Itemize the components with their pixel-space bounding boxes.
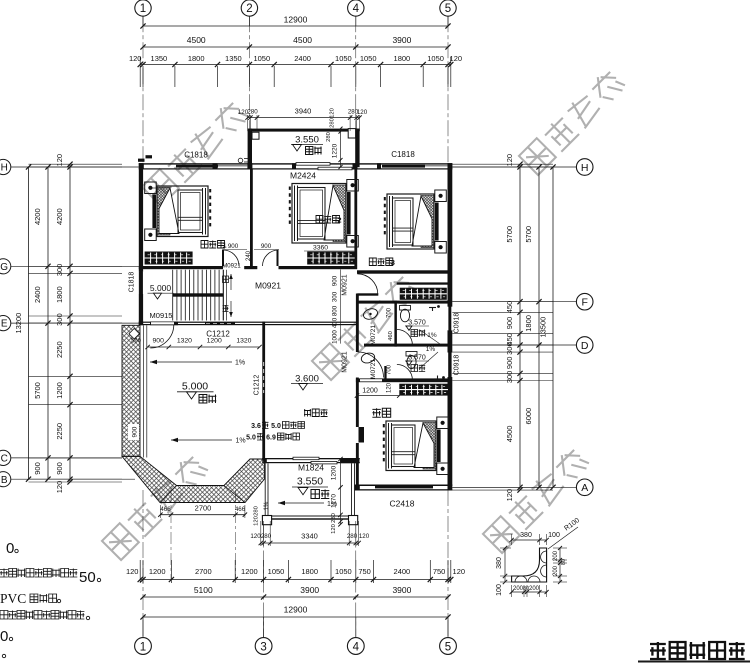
svg-text:120: 120 <box>505 154 514 167</box>
svg-text:120: 120 <box>505 489 514 502</box>
svg-text:C: C <box>1 454 8 465</box>
svg-text:1800: 1800 <box>55 286 64 303</box>
svg-text:380: 380 <box>520 532 532 539</box>
bedroom3 closet back line <box>397 282 448 284</box>
bath drain lines 1% <box>420 330 440 344</box>
svg-text:3940: 3940 <box>295 107 312 116</box>
svg-text:1%: 1% <box>235 360 245 367</box>
wardrobe bedroom2 <box>307 252 355 265</box>
svg-text:5700: 5700 <box>33 382 42 399</box>
svg-text:1220: 1220 <box>332 143 339 158</box>
door arc M0921 corridor-master-hall <box>358 352 384 378</box>
label bedroom3 (ciwo3) <box>369 258 393 266</box>
grid bubble 4 top <box>348 0 364 16</box>
grid bubble 1 top <box>135 0 151 16</box>
title underline <box>638 661 750 663</box>
detail R100 leader <box>548 527 578 549</box>
svg-text:4200: 4200 <box>55 208 64 225</box>
svg-text:120: 120 <box>450 54 463 63</box>
svg-text:M1824: M1824 <box>298 463 324 473</box>
stairs <box>173 270 224 321</box>
window sill marks top-left corner <box>138 159 145 162</box>
terrace parapet top (roof terrace) <box>248 129 360 132</box>
svg-text:120: 120 <box>453 567 466 576</box>
detail drawing gutter profile <box>512 548 547 582</box>
balcony post left <box>262 516 271 525</box>
svg-text:M0921: M0921 <box>342 274 349 296</box>
svg-text:12900: 12900 <box>284 605 308 615</box>
svg-text:120: 120 <box>387 382 393 393</box>
svg-text:560: 560 <box>131 339 142 345</box>
svg-text:C0918: C0918 <box>454 355 461 376</box>
sink master bath <box>360 352 376 365</box>
window C1212 in wall E <box>205 322 235 324</box>
svg-text:240: 240 <box>246 250 252 261</box>
svg-text:900: 900 <box>228 243 239 250</box>
grid leader G left <box>11 265 139 267</box>
dim 900 in parapet <box>128 424 139 440</box>
svg-text:3.550: 3.550 <box>297 476 323 488</box>
right dim line 13500 <box>552 167 554 487</box>
wall G under bedroom3 <box>357 270 448 273</box>
grid centerline 2 <box>248 16 250 167</box>
title glyphs <box>650 642 745 659</box>
grid bubble E left <box>0 316 11 331</box>
grid bubble 1 bottom <box>135 638 152 655</box>
svg-text:1200: 1200 <box>207 338 222 345</box>
svg-text:M0921: M0921 <box>255 281 281 291</box>
svg-text:300: 300 <box>505 371 514 384</box>
svg-text:1050: 1050 <box>335 567 352 576</box>
svg-text:2700: 2700 <box>195 504 212 513</box>
svg-text:1800: 1800 <box>301 567 318 576</box>
grid centerline 5 <box>447 16 449 162</box>
svg-text:1: 1 <box>140 642 146 654</box>
wardrobe master bedroom <box>399 384 448 396</box>
svg-text:1170: 1170 <box>331 494 338 508</box>
label up (shang) <box>223 305 229 312</box>
svg-text:900: 900 <box>153 338 165 345</box>
svg-text:1050: 1050 <box>335 54 352 63</box>
svg-text:5700: 5700 <box>505 226 514 243</box>
svg-text:M0915: M0915 <box>150 311 173 320</box>
svg-text:380: 380 <box>496 557 503 569</box>
svg-text:750: 750 <box>433 567 446 576</box>
svg-text:1%: 1% <box>264 501 270 510</box>
svg-text:C1212: C1212 <box>254 375 261 396</box>
grid bubble 3 bottom <box>255 638 272 655</box>
exterior wall bottom master (grid A) <box>355 485 453 487</box>
svg-text:C1818: C1818 <box>184 151 208 160</box>
window C0918 lower in right wall <box>448 353 451 378</box>
terrace hatched parapet left column <box>122 325 140 456</box>
opening M0915 zone <box>150 322 178 326</box>
grid bubble B left <box>0 472 11 487</box>
grid bubble 5 top <box>440 0 456 16</box>
shower symbols <box>429 307 436 309</box>
top terrace dim row 120/280/3940/280/120 <box>248 117 360 119</box>
svg-text:6.9: 6.9 <box>266 435 276 442</box>
grid bubble H left <box>0 159 11 174</box>
svg-text:700: 700 <box>387 307 393 318</box>
svg-text:300: 300 <box>505 342 514 355</box>
grid leader D right <box>452 344 576 346</box>
parapet post right <box>348 129 355 138</box>
svg-text:1050: 1050 <box>427 54 444 63</box>
window C1818 in left wall <box>140 271 143 295</box>
svg-text:466: 466 <box>160 506 171 513</box>
svg-text:750: 750 <box>358 567 371 576</box>
label living room (qijushi) <box>304 409 328 417</box>
svg-text:3340: 3340 <box>301 532 318 541</box>
svg-text:80: 80 <box>561 559 567 565</box>
note line: floor lower than ... <box>0 569 77 578</box>
svg-text:1320: 1320 <box>236 338 251 345</box>
svg-text:E: E <box>1 319 8 330</box>
grid bubble 5 bottom <box>440 638 457 655</box>
svg-text:3.550: 3.550 <box>295 135 319 146</box>
grid centerline 1 <box>142 16 144 162</box>
svg-text:3.600: 3.600 <box>295 374 319 385</box>
svg-text:M2424: M2424 <box>290 171 316 181</box>
dim 12900 bottom <box>143 616 448 618</box>
svg-text:280: 280 <box>326 132 332 142</box>
balcony dim row 120/280/3340/280/120 <box>261 542 359 544</box>
svg-text:1%: 1% <box>427 332 437 339</box>
svg-text:3360: 3360 <box>313 245 328 252</box>
svg-text:C2418: C2418 <box>389 499 414 509</box>
svg-text:200: 200 <box>529 586 540 592</box>
svg-text:F: F <box>581 297 587 309</box>
stair arrows <box>230 274 232 290</box>
living room bottom wall <box>262 458 360 459</box>
grid leader C left <box>11 457 122 459</box>
grid bubble F right <box>576 293 593 310</box>
grid bubble D right <box>576 337 593 354</box>
svg-text:3.570: 3.570 <box>408 355 426 362</box>
svg-text:H: H <box>1 163 8 174</box>
svg-text:3.570: 3.570 <box>408 320 426 327</box>
svg-text:1200: 1200 <box>55 382 64 399</box>
svg-text:5100: 5100 <box>194 585 213 595</box>
svg-text:120: 120 <box>357 109 368 116</box>
grid bubble C left <box>0 450 11 465</box>
exterior wall top (grid H) <box>139 163 453 164</box>
svg-text:700: 700 <box>387 364 393 375</box>
window C0918 upper in right wall <box>448 307 451 331</box>
svg-text:M0721: M0721 <box>370 359 377 379</box>
grid bubble 2 top <box>241 0 257 16</box>
left dim line intermediate <box>47 167 49 479</box>
bath divider wall (grid D) <box>364 344 448 347</box>
parapet post left <box>252 132 259 139</box>
svg-text:H: H <box>581 162 589 174</box>
svg-text:300: 300 <box>55 313 64 326</box>
svg-text:2250: 2250 <box>55 423 64 440</box>
svg-text:280: 280 <box>347 533 358 540</box>
grid leader F right <box>452 301 576 303</box>
svg-text:900: 900 <box>505 357 514 370</box>
closet bedroom3 / bath counter <box>400 288 447 300</box>
svg-text:2250: 2250 <box>55 341 64 358</box>
svg-text:300: 300 <box>55 264 64 277</box>
sink public bath <box>362 307 379 321</box>
detail dims left 380/100 <box>504 548 506 582</box>
svg-text:3900: 3900 <box>392 585 411 595</box>
svg-text:5: 5 <box>445 642 451 654</box>
balcony 1% arrow <box>278 502 324 504</box>
master bedroom door leaf (dark) <box>359 427 365 443</box>
svg-text:280: 280 <box>331 513 337 523</box>
grid leader A right <box>452 486 576 488</box>
grid bubble 4 bottom <box>347 638 364 655</box>
exterior wall right (grid 5) <box>448 163 453 307</box>
svg-text:120: 120 <box>331 524 337 534</box>
door M1824 sliding leaves <box>293 457 319 460</box>
watermark 5 left-bottom <box>102 453 209 560</box>
svg-text:D: D <box>581 340 589 352</box>
grid bubble A right <box>576 479 593 496</box>
door arc M0915 stairs-terrace <box>150 325 174 349</box>
grid leader H left <box>11 166 139 168</box>
svg-text:900: 900 <box>261 243 272 250</box>
svg-text:2700: 2700 <box>195 567 212 576</box>
watermark 4 right-bottom <box>483 446 590 553</box>
living room left wall (grid 3) <box>262 322 265 460</box>
svg-text:1000: 1000 <box>332 330 339 344</box>
terrace parapet corner diamond <box>129 328 139 338</box>
detail dims top 380/100 <box>512 539 547 541</box>
window C1818 left in top wall <box>176 165 218 168</box>
door M2424 sliding leaves <box>296 163 330 166</box>
left dim line segments <box>69 164 71 482</box>
top dimension block <box>143 25 448 27</box>
svg-text:1800: 1800 <box>394 54 411 63</box>
svg-text:200: 200 <box>553 565 559 576</box>
svg-text:5700: 5700 <box>524 226 533 243</box>
exterior wall left (grid 1) <box>139 163 143 271</box>
svg-text:B: B <box>1 475 8 486</box>
grid centerline 3 <box>263 525 265 638</box>
divider bedroom2/3 <box>354 170 357 267</box>
window C1818 right in top wall <box>382 165 425 168</box>
svg-text:5.0: 5.0 <box>271 423 281 430</box>
wardrobe bedroom1 <box>145 252 193 265</box>
dim row 5100/3900/3900 bottom <box>143 596 448 598</box>
svg-text:280: 280 <box>247 109 258 116</box>
door arc M0721 public bath <box>397 330 413 346</box>
watermark 3 center <box>312 273 419 380</box>
detail dims right 200/80/200 <box>559 548 561 582</box>
svg-text:5.000: 5.000 <box>182 381 208 393</box>
svg-text:120: 120 <box>55 154 64 167</box>
svg-text:4: 4 <box>353 642 360 654</box>
label terrace top (lutai) <box>306 147 322 155</box>
grid leader E left <box>11 322 140 324</box>
svg-text:C0918: C0918 <box>454 313 461 334</box>
svg-text:900: 900 <box>132 426 139 437</box>
label master bath (zhuwei) <box>411 365 425 372</box>
divider bedroom1/2 <box>250 170 253 267</box>
bay band miter joints <box>122 456 245 502</box>
dim row segments top <box>140 64 451 66</box>
watermark 1 top-left <box>142 99 249 206</box>
door arc M0921 bedroom2 <box>263 250 279 266</box>
grid bubble G left <box>0 259 11 274</box>
terrace bay hatched band <box>122 456 265 502</box>
extension lines left <box>29 163 123 165</box>
svg-text:0: 0 <box>6 540 14 557</box>
bed bedroom2 <box>347 180 359 192</box>
bathroom top wall <box>357 301 448 304</box>
svg-text:1%: 1% <box>235 438 245 445</box>
grid leader B left <box>11 478 135 480</box>
master top wall <box>356 378 448 382</box>
window C2418 in bottom wall <box>375 486 433 489</box>
svg-text:1800: 1800 <box>524 315 533 332</box>
svg-text:200: 200 <box>553 550 559 561</box>
balcony right vertical dims <box>340 459 342 524</box>
svg-text:1200: 1200 <box>331 465 338 480</box>
label terrace (lutai) <box>199 395 216 404</box>
svg-text:1: 1 <box>140 3 146 15</box>
svg-text:100: 100 <box>548 532 560 539</box>
svg-text:1050: 1050 <box>268 567 285 576</box>
balcony parapet <box>264 463 266 519</box>
svg-text:2: 2 <box>246 3 252 15</box>
note line: size per construction <box>0 611 84 620</box>
dim row segments bottom <box>140 579 451 581</box>
balcony post right <box>349 516 358 525</box>
svg-text:3900: 3900 <box>300 585 319 595</box>
window C1212 in living left wall <box>263 361 265 394</box>
grid bubble H right <box>576 159 593 176</box>
wall G (bedrooms / hall) <box>139 266 223 269</box>
svg-text:13500: 13500 <box>539 317 548 338</box>
bay dim 466/2700/466 <box>160 514 245 516</box>
svg-text:1320: 1320 <box>177 338 192 345</box>
svg-text:460: 460 <box>388 331 394 341</box>
svg-text:300: 300 <box>332 291 339 302</box>
svg-text:C1818: C1818 <box>391 150 415 159</box>
svg-text:1: 1 <box>222 241 226 250</box>
label master bedroom (zhuwo) <box>372 408 390 417</box>
svg-text:2: 2 <box>337 216 341 225</box>
svg-text:A: A <box>581 482 588 494</box>
svg-text:G: G <box>0 262 8 273</box>
extension lines top <box>142 66 144 87</box>
svg-text:120: 120 <box>359 533 370 540</box>
svg-text:900: 900 <box>332 275 339 286</box>
svg-text:C1212: C1212 <box>206 330 230 339</box>
svg-text:C1818: C1818 <box>129 272 136 293</box>
extension lines bottom <box>142 560 144 583</box>
svg-text:2400: 2400 <box>394 567 411 576</box>
svg-text:280: 280 <box>330 118 336 128</box>
grid leader H right <box>452 166 576 168</box>
svg-text:800: 800 <box>332 305 339 316</box>
svg-text:M0721: M0721 <box>370 325 377 345</box>
svg-text:466: 466 <box>235 506 246 513</box>
dim row 4500/4500/3900 top <box>143 46 448 48</box>
svg-text:450: 450 <box>505 301 514 314</box>
svg-text:1050: 1050 <box>253 54 270 63</box>
right dim line segments <box>519 164 521 490</box>
svg-text:3: 3 <box>391 258 395 267</box>
bed bedroom1 <box>145 182 157 194</box>
label public bath (gongwei) <box>411 330 425 337</box>
svg-text:900: 900 <box>55 462 64 475</box>
svg-text:M0921: M0921 <box>222 264 241 270</box>
label balcony (yangtai) <box>311 490 329 499</box>
svg-text:400: 400 <box>332 317 339 328</box>
stair hall bottom wall / terrace top wall (grid E) <box>139 322 357 323</box>
watermark 2 top-right <box>519 68 626 175</box>
svg-text:50: 50 <box>79 569 96 586</box>
svg-text:120: 120 <box>126 567 139 576</box>
svg-text:120: 120 <box>129 54 142 63</box>
door arc M0921 bedroom1 <box>223 250 239 266</box>
svg-text:5.0: 5.0 <box>246 435 256 442</box>
terrace dim row 900/1320/1200/1320 <box>148 346 260 348</box>
door arc M0921 bedroom3 <box>357 274 378 295</box>
svg-text:900: 900 <box>33 462 42 475</box>
svg-text:120: 120 <box>250 533 261 540</box>
svg-text:100: 100 <box>496 584 503 596</box>
svg-text:5: 5 <box>445 3 451 15</box>
label down (xia) <box>223 276 229 283</box>
divider x=357 (hall / bath / master) <box>356 294 359 353</box>
svg-text:4200: 4200 <box>33 208 42 225</box>
svg-text:0: 0 <box>0 628 8 645</box>
svg-text:4500: 4500 <box>293 35 312 45</box>
svg-text:1%: 1% <box>426 346 436 353</box>
svg-text:6000: 6000 <box>524 408 533 425</box>
svg-text:1200: 1200 <box>241 567 258 576</box>
left dim line 13200 <box>28 167 30 479</box>
svg-text:1050: 1050 <box>360 54 377 63</box>
label bedroom2 (ciwo2) <box>316 216 340 224</box>
detail dims bottom 200/80/200 <box>512 591 547 593</box>
svg-text:1350: 1350 <box>151 54 168 63</box>
bed bedroom3 <box>435 190 447 202</box>
svg-text:2400: 2400 <box>294 54 311 63</box>
svg-text:120: 120 <box>330 108 336 118</box>
door arc M0721 master bath <box>397 365 413 381</box>
svg-text:1200: 1200 <box>149 567 166 576</box>
svg-text:120: 120 <box>254 516 260 526</box>
svg-text:4: 4 <box>353 3 360 15</box>
small circle symbol near terrace left <box>238 158 243 163</box>
svg-text:1350: 1350 <box>225 54 242 63</box>
svg-text:120: 120 <box>55 481 64 494</box>
svg-text:5.000: 5.000 <box>150 283 172 293</box>
terrace 1% slope arrows <box>150 361 232 363</box>
svg-text:PVC: PVC <box>0 591 26 606</box>
terrace inner rail line <box>143 325 145 457</box>
svg-text:900: 900 <box>505 317 514 330</box>
svg-text:M0921: M0921 <box>342 351 349 373</box>
extension lines right <box>452 163 553 165</box>
toilet master bath <box>406 352 417 357</box>
svg-text:3: 3 <box>260 642 266 654</box>
toilet public bath <box>400 306 411 311</box>
bed master bedroom <box>437 417 449 429</box>
svg-text:280: 280 <box>254 506 260 516</box>
svg-text:2400: 2400 <box>33 286 42 303</box>
right dim line intermediate <box>538 167 540 487</box>
svg-text:1800: 1800 <box>188 54 205 63</box>
